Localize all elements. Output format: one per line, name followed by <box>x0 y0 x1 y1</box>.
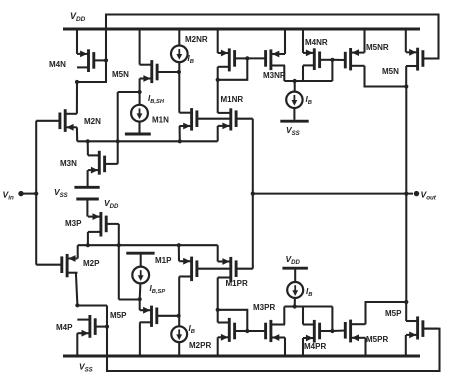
gate link vertical M1NR-M1PR <box>252 119 254 269</box>
wire IB-SP node horizontal <box>119 298 140 300</box>
wire gate line M4NR to M5NR <box>332 59 345 61</box>
transistor M1NR <box>218 108 253 130</box>
power rail VSS (bottom) <box>63 355 420 358</box>
current source IB top-right <box>286 92 302 108</box>
wire M2NR/M3NR gate tie-down <box>218 58 248 79</box>
wire IB branch (bottom) to VSS <box>178 342 180 356</box>
output line to Vout <box>253 193 413 195</box>
svg-text:M5PR: M5PR <box>366 335 388 344</box>
node dot IB-SH <box>138 90 142 94</box>
wire M1PR source to node line <box>217 245 219 261</box>
wire M1NR source to node line <box>217 126 219 141</box>
wire M4N drain down to M2N drain <box>76 82 78 114</box>
transistor M4N <box>77 49 106 72</box>
wire M5P drain up <box>405 302 407 321</box>
svg-text:M3NR: M3NR <box>263 71 286 80</box>
wire M4P source to VSS <box>76 333 78 356</box>
wire M5N drain down <box>405 66 407 87</box>
wire M1N source to node line <box>179 126 181 141</box>
wire M4PR gate tie to bias node <box>331 307 333 332</box>
svg-text:M2N: M2N <box>84 117 101 126</box>
wire gate line M2NR to M3NR <box>247 57 266 59</box>
terminal dot Vout <box>414 191 419 196</box>
bar above IB,SP <box>126 252 154 255</box>
wire M3N drain to node line <box>87 141 89 155</box>
wire gate line M4PR to M5PR <box>332 329 345 332</box>
wire M3N gate up to IB-SH node <box>117 92 119 164</box>
wire M5P source to VSS <box>405 335 407 356</box>
node dot M4NR gate <box>330 58 334 62</box>
input wire Vin <box>21 193 36 195</box>
wire M5P source to IB-SP node <box>139 299 141 310</box>
gate bias line (top) from M4N gate to M5N gate <box>106 15 439 61</box>
output vertical wire <box>405 87 407 303</box>
VSS bar top-right <box>280 120 308 123</box>
VDD bar (mid-left, M3P source) <box>76 198 99 201</box>
current source IB top <box>171 46 188 63</box>
wire M5N source to IB-SH node <box>139 79 141 93</box>
node dot M4N drain tie <box>75 80 79 84</box>
wire M5PR drain to output rail <box>366 302 407 324</box>
node dot M1N source <box>178 139 182 143</box>
node dot M4PR gate <box>330 329 334 333</box>
current source IB bottom <box>171 326 187 342</box>
current source IB,SP <box>132 267 149 284</box>
transistor M5N (feedforward, upper mid-left) <box>140 60 179 83</box>
svg-text:M4P: M4P <box>56 323 73 332</box>
node dot M5P gate tap <box>177 314 181 318</box>
node dot cascode junction <box>216 78 220 82</box>
node dot M3N drain tap <box>86 139 90 143</box>
transistor M5NR <box>345 48 364 70</box>
transistor M2NR <box>218 48 248 71</box>
transistor M2PR <box>218 318 248 342</box>
transistor M4NR <box>303 48 332 70</box>
wire IB to VDD bar bottom-right <box>294 270 296 283</box>
wire IB to VSS bar <box>293 108 295 120</box>
wire IB branch (top) from VDD <box>178 29 180 46</box>
transistor M5P (feedforward, lower mid-left) <box>140 306 179 327</box>
svg-text:M1NR: M1NR <box>221 95 244 104</box>
transistor M3N <box>88 151 118 175</box>
wire M2PR source to VSS <box>217 337 219 356</box>
transistor M2N <box>36 109 77 132</box>
wire M4P gate vertical upper <box>106 306 108 327</box>
node dot cascode junction bottom <box>216 308 220 312</box>
transistor M4P <box>77 315 107 338</box>
node dot M4P drain tie <box>75 303 79 307</box>
node dot M2NR gate <box>245 56 249 60</box>
node dot M4P gate <box>105 325 109 329</box>
transistor M1PR <box>218 257 253 282</box>
wire M3P drain to node line <box>87 232 89 245</box>
node line (top) sources of M1N/M1NR/M2N <box>77 140 218 142</box>
wire IB-SH node horizontal <box>118 91 140 93</box>
wire M3PR source to VSS <box>284 338 286 357</box>
wire IB branch top-right <box>294 81 296 92</box>
svg-text:M3PR: M3PR <box>253 303 275 312</box>
wire IB,SP to top bar <box>140 253 142 266</box>
VDD bar bottom-right <box>282 267 308 270</box>
gate bias line (bottom) from M4P gate to M5P gate <box>107 327 440 371</box>
current source IB bottom-right <box>287 282 303 298</box>
svg-text:M4NR: M4NR <box>305 38 328 47</box>
wire M5NR source to VDD <box>363 29 365 53</box>
wire M4NR source to VDD <box>302 29 304 53</box>
wire M4PR drain to bias node <box>302 307 304 325</box>
current source IB,SH <box>131 105 148 122</box>
node dot IB top-right <box>293 79 297 83</box>
node dot M3P drain tap <box>86 243 90 247</box>
node dot node-line x118 bottom <box>117 243 121 247</box>
transistor M3NR <box>266 49 285 70</box>
power rail VDD (top) <box>63 28 420 31</box>
node dot output center <box>251 192 255 196</box>
transistor M1P <box>179 257 231 282</box>
wire M5NR drain to output rail <box>365 66 407 87</box>
wire IB to M1N drain <box>178 62 180 113</box>
wire M1P source to node line <box>178 245 180 261</box>
svg-text:M5N: M5N <box>112 70 129 79</box>
node dot output right <box>404 192 408 196</box>
svg-text:M5P: M5P <box>385 309 402 318</box>
wire M1NR drain up to M2NR drain <box>217 67 219 113</box>
svg-text:M5NR: M5NR <box>366 43 389 52</box>
wire M5N source to VDD <box>405 29 407 52</box>
node line (bottom) sources of M1P/M1PR/M2P <box>78 244 218 246</box>
wire M5P drain to VSS <box>139 322 141 356</box>
transistor M1N <box>179 108 231 131</box>
svg-text:M1P: M1P <box>155 256 172 265</box>
wire IB,SH to bottom bar <box>138 122 140 134</box>
wire M4NR drain to bias node <box>302 65 304 81</box>
wire gate line M2PR to M3PR <box>247 330 266 332</box>
transistor M2P <box>36 254 77 277</box>
transistor M4PR <box>303 320 332 343</box>
transistor M3P <box>88 212 119 237</box>
transistor M3PR <box>266 320 285 342</box>
node dot Vin gate wire <box>34 192 38 196</box>
svg-text:M4N: M4N <box>49 60 66 69</box>
node dot output top <box>404 84 408 88</box>
svg-text:M1N: M1N <box>152 116 169 125</box>
wire M4P drain up to M2P drain <box>76 273 78 306</box>
wire M3N source down to VSS bar <box>87 170 89 187</box>
wire M4P gate-drain tie <box>77 304 107 306</box>
wire M2N source to node line <box>76 127 78 141</box>
input gate wire vertical (M2N gate to M2P gate) <box>35 121 37 265</box>
wire M3P source up to VDD bar <box>86 199 88 217</box>
wire M2P source to node line <box>77 245 79 258</box>
wire IB to M1P drain <box>178 277 180 327</box>
svg-text:M1PR: M1PR <box>226 279 248 288</box>
node dot M1P source <box>177 243 181 247</box>
wire M5PR source to VSS <box>364 338 366 356</box>
node dot M4N gate <box>104 58 108 62</box>
wire M3PR drain up <box>283 307 285 325</box>
node dot output bottom <box>404 300 408 304</box>
terminal dot Vin <box>18 191 23 196</box>
node dot M5N gate tap <box>177 70 181 74</box>
wire M4PR source to VSS <box>302 338 304 356</box>
VSS bar (mid-left) <box>74 186 99 189</box>
wire M4NR gate tie to bias node <box>331 60 333 81</box>
node dot M2PR gate <box>245 329 249 333</box>
svg-text:M2NR: M2NR <box>185 35 208 44</box>
svg-text:M4PR: M4PR <box>304 342 326 351</box>
svg-text:M2PR: M2PR <box>189 341 211 350</box>
wire M3NR source to VDD <box>284 29 286 54</box>
wire M5N drain to VDD <box>139 29 141 65</box>
transistor M5P (output, bottom right) <box>406 316 439 339</box>
wire M3P gate down to IB-SP node <box>118 224 120 300</box>
wire M2NR source to VDD <box>217 29 219 53</box>
wire M1PR drain down to M2PR drain <box>217 278 219 323</box>
node dot IB-SP <box>138 297 142 301</box>
svg-text:M5N: M5N <box>382 67 399 76</box>
node line bias (top right) <box>284 80 332 82</box>
node line bias (bottom right) <box>284 305 332 307</box>
transistor M5PR <box>345 320 365 343</box>
wire M4N gate-drain tie <box>77 60 106 82</box>
wire IB branch bottom-right <box>294 298 296 307</box>
bar below IB,SH <box>125 133 151 136</box>
wire M2PR/M3PR gate tie-up <box>218 310 248 331</box>
svg-text:M3N: M3N <box>60 159 77 168</box>
wire IB-SH node to current source <box>139 92 141 105</box>
svg-text:M3P: M3P <box>65 219 82 228</box>
wire M3NR drain down <box>283 66 285 82</box>
wire M4N source to VDD <box>76 29 78 54</box>
transistor M5N (output, top right) <box>406 48 439 71</box>
node dot node-line x117 <box>116 139 120 143</box>
svg-text:M2P: M2P <box>83 259 100 268</box>
wire IB-SP node to current source <box>139 283 142 299</box>
node dot IB bottom-right <box>293 304 297 308</box>
svg-text:M5P: M5P <box>110 311 127 320</box>
